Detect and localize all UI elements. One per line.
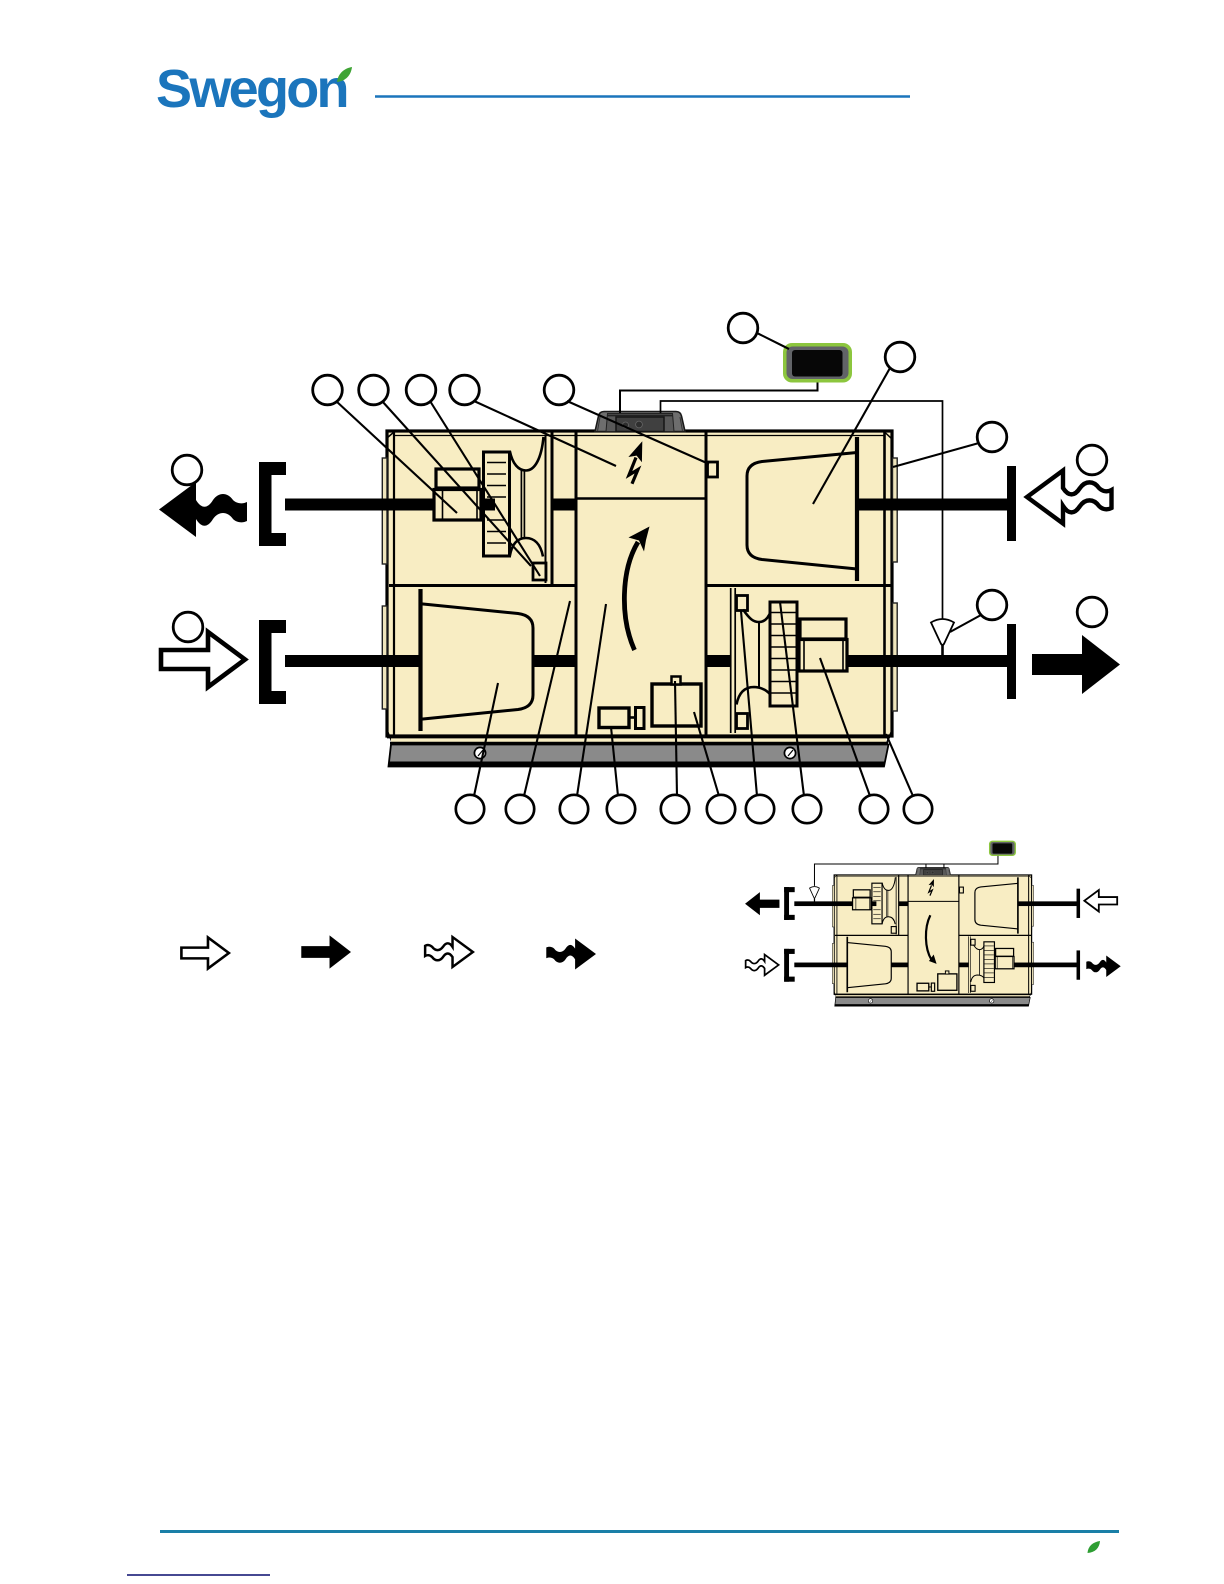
small extract arrow (outline left) [1084,890,1117,911]
legend arrow solid [301,935,351,968]
wire display to unit [620,382,818,413]
leader lines bottom [474,601,913,796]
legend arrow wavy outline [425,937,473,967]
callout circles bottom [456,795,932,823]
legend arrow outline [181,937,228,968]
callout circles top [313,313,915,405]
big air handling unit [259,412,1016,767]
exhaust air arrow (wavy solid left) [159,482,247,537]
duct temperature sensor [931,619,954,656]
wire unit to duct sensor [661,401,943,619]
rotor arrow (up) [624,527,649,651]
outdoor air arrow (outline right) [161,632,245,687]
header rule [375,95,910,97]
small unit group [745,841,1121,1007]
small control display [989,841,1016,856]
small unit wires [814,856,997,886]
leader lines top [336,333,981,632]
small duct sensor [810,887,820,902]
control display [783,343,852,383]
footer leaf [1088,1541,1101,1553]
small exhaust arrow (solid left) [745,892,779,915]
supply air arrow (solid right) [1032,635,1120,694]
small supply arrow (wavy solid right) [1086,956,1120,977]
legend arrow wavy solid [546,938,596,969]
small air handling unit [784,867,1080,1006]
extract air arrow (wavy outline left) [1027,471,1112,524]
small rotor arrow (down) [926,915,937,964]
small outdoor arrow (wavy outline right) [746,955,779,976]
svg-text:Swegon: Swegon [156,59,347,119]
logo leaf [337,67,352,82]
callout circles sides [172,422,1107,642]
Swegon logo text [156,59,347,119]
footer rule [160,1530,1119,1533]
footer link underline [127,1574,270,1576]
